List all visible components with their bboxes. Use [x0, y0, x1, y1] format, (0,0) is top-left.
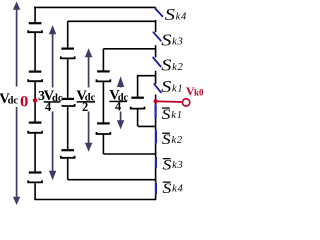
svg-text:4: 4: [45, 100, 52, 114]
wire rail 3Vdc/4 bottom: [68, 179, 156, 181]
capacitor C2b (3Vdc/4 string): [61, 99, 75, 106]
switch Sk1 blade: [154, 84, 161, 92]
switch S-bar-k4 blade (closed): [155, 182, 157, 194]
switch S-bar-k2 blade (closed): [155, 130, 157, 143]
svg-text:k: k: [171, 110, 176, 121]
label Sk4: [165, 5, 187, 24]
capacitor C3b (Vdc/2 string): [97, 123, 111, 134]
svg-text:1: 1: [177, 110, 182, 121]
svg-text:1: 1: [177, 84, 182, 95]
svg-text:4: 4: [178, 184, 184, 195]
wire switch chain segments: [155, 7, 157, 199]
label Vk0 (red): [186, 84, 204, 98]
switch S-bar-k3 blade (closed): [155, 157, 157, 168]
wire Vdc/2 string segments: [102, 49, 104, 154]
wire rail Vdc/2 top: [103, 48, 155, 50]
svg-text:S: S: [165, 5, 175, 24]
svg-text:S: S: [161, 30, 171, 49]
capacitor C3a (Vdc/2 string): [97, 71, 111, 81]
wire dc-bus string segments: [34, 7, 36, 199]
svg-text:k: k: [172, 184, 177, 195]
wire top rail (Vdc+ to switch chain): [34, 6, 156, 8]
label S-bar-k3: [163, 158, 183, 174]
svg-text:2: 2: [82, 100, 88, 114]
switch Sk3 blade: [153, 32, 160, 40]
label Sk2: [161, 55, 183, 74]
voltage arrow 3Vdc/4 (double headed): [49, 25, 56, 180]
svg-text:dc: dc: [8, 96, 19, 107]
label Sk3: [161, 30, 182, 49]
node 0 junction dot: [33, 98, 38, 103]
svg-text:k: k: [172, 62, 177, 73]
svg-text:3: 3: [177, 37, 183, 48]
svg-text:k: k: [176, 11, 181, 22]
svg-text:k0: k0: [194, 87, 204, 97]
svg-text:4: 4: [115, 99, 122, 113]
wire rail 3Vdc/4 top: [68, 20, 156, 22]
svg-text:4: 4: [181, 11, 187, 22]
capacitor C1c (dc bus): [28, 123, 42, 133]
svg-text:k: k: [172, 135, 177, 146]
svg-text:S: S: [162, 107, 171, 123]
voltage arrow Vdc/4 (double headed): [117, 76, 124, 129]
svg-text:3: 3: [177, 160, 183, 171]
capacitor C1a (dc bus): [28, 23, 42, 32]
node Vk0 junction dot: [154, 99, 158, 103]
svg-text:k: k: [172, 37, 177, 48]
voltage arrow Vdc (double headed): [13, 2, 20, 206]
svg-text:k: k: [172, 84, 177, 95]
label Sk1: [161, 77, 182, 96]
label Vdc/4: [109, 88, 129, 114]
node output terminal circle: [182, 99, 189, 106]
wire rail Vdc/4 top: [137, 75, 156, 77]
switch S-bar-k1 blade (closed): [155, 104, 157, 118]
wire output (red): [158, 100, 183, 103]
switch Sk2 blade: [153, 58, 161, 67]
svg-text:S: S: [161, 77, 171, 96]
wire bottom rail: [34, 199, 156, 201]
wire rail Vdc/2 bottom: [103, 153, 156, 155]
label Vdc (left): [0, 87, 19, 107]
label S-bar-k4: [163, 181, 184, 197]
capacitor C2a (3Vdc/4 string): [61, 49, 75, 59]
label S-bar-k2: [162, 132, 183, 148]
label S-bar-k1: [162, 107, 182, 123]
capacitor C2c (3Vdc/4 string): [61, 150, 75, 158]
svg-text:k: k: [172, 160, 177, 171]
svg-text:S: S: [163, 158, 172, 174]
switch Sk4 blade: [155, 9, 162, 17]
label 3Vdc/4: [38, 88, 63, 115]
wire Vdc/4 string segments: [137, 76, 139, 127]
capacitor C1d (dc bus): [28, 173, 42, 183]
svg-text:S: S: [162, 132, 171, 148]
svg-text:S: S: [163, 181, 172, 197]
svg-text:2: 2: [178, 62, 184, 73]
capacitor C1b (dc bus): [28, 72, 42, 82]
svg-text:0: 0: [20, 93, 29, 110]
svg-text:S: S: [161, 55, 171, 74]
label Vdc/2: [76, 88, 96, 114]
capacitor C4 (Vdc/4 string): [131, 98, 145, 109]
svg-text:2: 2: [177, 135, 183, 146]
wire rail Vdc/4 bottom: [138, 125, 156, 127]
wire 3Vdc/4 string segments: [67, 21, 69, 179]
voltage arrow Vdc/2 (double headed): [85, 48, 92, 152]
